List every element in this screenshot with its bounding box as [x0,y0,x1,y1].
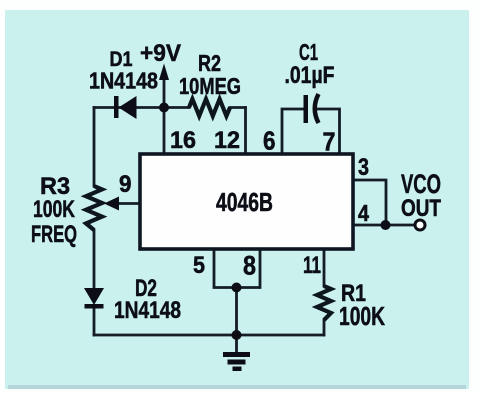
svg-text:3: 3 [358,154,369,181]
wire: pin 11 riser to R1 [323,249,326,286]
wire: C1 loop right riser pin 7 [316,109,340,154]
svg-text:6: 6 [263,128,276,156]
diode D2 [84,288,104,309]
node junction dot pins 5/8 [232,283,242,293]
svg-text:5: 5 [193,252,205,279]
svg-text:11: 11 [303,252,321,279]
wire: pin 16 riser [163,108,166,155]
svg-text:8: 8 [243,251,256,281]
node junction dot ground bus [232,330,242,340]
wire: pins 5-8 loop [214,249,260,288]
ground [223,352,250,371]
resistor R2 zigzag [189,99,230,116]
wire: ground stub [235,335,238,352]
wire: left vertical from top corner down to R3 [93,108,96,187]
svg-text:12: 12 [214,127,240,154]
resistor R3 zigzag [86,186,102,230]
+9V supply arrowhead [159,64,169,81]
svg-text:7: 7 [323,129,336,157]
capacitor C1 [304,94,319,123]
wire: junction 5/8 down to bus [235,288,238,336]
svg-text:10MEG: 10MEG [179,73,241,99]
svg-text:16: 16 [170,127,196,154]
svg-text:100K: 100K [339,301,385,331]
svg-text:4046B: 4046B [216,187,273,217]
svg-text:4: 4 [358,200,369,226]
wire: R3 wiper line [116,202,140,205]
diode D1 [114,96,137,119]
wire: C1 loop left riser pin 6 [282,109,304,154]
wire: +9V arrow shaft [163,76,166,106]
wire: pin 12 riser [244,108,247,155]
svg-text:1N4148: 1N4148 [89,68,158,94]
R3 wiper arrowhead [104,197,119,211]
wire: D2 to ground bus corner [93,306,96,335]
svg-text:.01µF: .01µF [285,62,335,89]
wire: ground bus [94,334,324,337]
VCO OUT terminal circle [415,220,425,230]
wire: R2 right to pin12 corner [230,106,246,109]
IC U1 4046B [140,154,353,249]
svg-text:OUT: OUT [401,195,441,222]
resistor R1 zigzag [317,286,331,320]
svg-text:1N4148: 1N4148 [114,297,181,324]
svg-text:100K: 100K [33,196,75,223]
wire: pin 4 stub to VCO OUT [353,224,414,227]
wire: R1 bottom to bus [323,320,326,335]
svg-text:+9V: +9V [140,40,182,67]
svg-text:9: 9 [119,171,132,198]
wire: pin 3 stub [353,180,386,223]
wire: R3 lower vertical to D2 [93,230,96,290]
node junction dot D1/+9V/pin16 [159,103,169,113]
node junction dot pin4/pin3 [381,220,391,230]
wire: top horizontal (D1 / +9V / R2 segment left) [94,106,189,109]
svg-text:FREQ: FREQ [31,221,77,248]
